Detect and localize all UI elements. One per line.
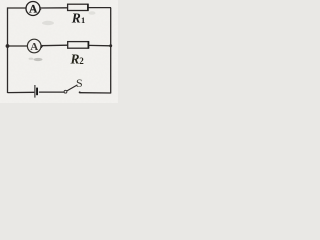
svg-text:A: A	[29, 4, 38, 16]
svg-text:1: 1	[81, 15, 85, 25]
svg-text:R: R	[71, 11, 81, 26]
wire: left vertical	[7, 7, 9, 93]
wire: right vertical	[110, 8, 112, 94]
wire: top-left horizontal segment	[8, 7, 27, 9]
label R1	[71, 11, 85, 26]
svg-text:R: R	[70, 51, 80, 66]
ammeter A2	[27, 39, 43, 53]
wire: bottom-left segment to battery	[8, 91, 35, 93]
smudge artifact top middle	[42, 21, 54, 25]
wire: middle branch between A2 and R2	[41, 44, 68, 47]
node A (junction of middle branch and left wire)	[6, 44, 10, 48]
wire: top-right segment from R1 to right corner	[88, 7, 111, 9]
svg-text:A: A	[30, 41, 38, 53]
wire: middle branch left segment	[8, 45, 28, 47]
wire: middle branch right segment	[89, 44, 111, 46]
smudge artifact right of R1 label	[89, 11, 96, 15]
svg-text:S: S	[76, 76, 83, 90]
resistor R2	[68, 41, 89, 48]
smudge artifact below A2	[34, 58, 43, 61]
ammeter A1	[26, 2, 41, 16]
switch S	[64, 85, 81, 94]
svg-text:2: 2	[79, 56, 84, 66]
resistor R1	[68, 4, 88, 11]
label R2	[70, 51, 85, 66]
battery cell	[35, 85, 37, 98]
paper background	[0, 0, 118, 103]
wire: battery to switch segment	[39, 91, 64, 93]
node B (junction of middle branch and right wire)	[109, 44, 112, 47]
wire: top segment between A1 and R1	[40, 7, 68, 9]
wire: switch to bottom-right corner	[80, 92, 111, 94]
